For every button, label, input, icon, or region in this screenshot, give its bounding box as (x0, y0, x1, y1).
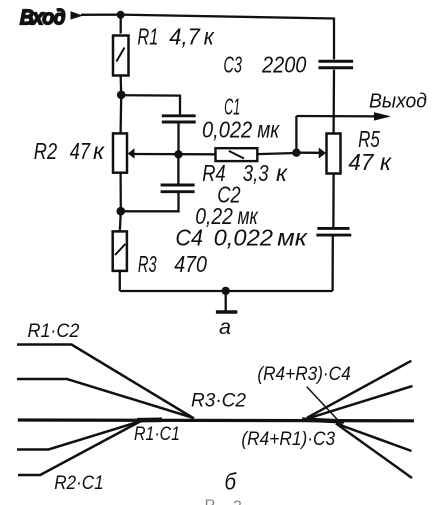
axis frequency response (18, 418, 414, 422)
junction input/R1 (117, 11, 125, 19)
wire stub up to output line (295, 116, 297, 153)
svg-text:(R4+R3)·C4: (R4+R3)·C4 (257, 364, 350, 385)
svg-text:0,022: 0,022 (214, 225, 274, 251)
wire bottom rail (120, 290, 333, 292)
asymptote right upper steep (307, 361, 411, 418)
svg-text:(R4+R1)·C3: (R4+R1)·C3 (241, 429, 335, 450)
wire R3 bottom lead (119, 271, 121, 291)
asymptote R2·C1 (18, 421, 141, 475)
capacitor C3 (318, 61, 353, 67)
svg-text:к: к (276, 160, 288, 186)
asymptote R1·C1 (17, 421, 141, 450)
wire C3 top lead (333, 18, 335, 60)
svg-text:47: 47 (70, 138, 91, 164)
wire R2 top lead (119, 95, 122, 133)
label R3 470 (138, 251, 207, 277)
svg-text:3: 3 (233, 499, 242, 505)
svg-text:R2: R2 (34, 138, 57, 164)
junction C1/wiper line (174, 150, 182, 158)
svg-text:R1: R1 (137, 24, 158, 50)
asymptote right lower steep (336, 424, 412, 479)
svg-text:2200: 2200 (261, 52, 306, 78)
wire C3 to R5 top (332, 70, 335, 134)
axis ink blob left convergence (137, 417, 162, 422)
svg-text:R2·C1: R2·C1 (54, 473, 103, 494)
svg-text:3,3: 3,3 (243, 160, 269, 186)
wire wiper to R5 (296, 152, 319, 154)
wire C4 bottom lead (331, 236, 333, 291)
svg-text:0,022: 0,022 (202, 117, 252, 143)
asymptote R1·C2 (17, 345, 194, 419)
resistor R4 (216, 148, 258, 161)
svg-text:к: к (204, 24, 215, 50)
capacitor C1 (162, 116, 196, 122)
asymptote right upper shallow (310, 386, 413, 418)
wire C2 top lead (177, 155, 179, 184)
svg-text:470: 470 (174, 251, 207, 277)
potentiometer R2 (113, 133, 127, 172)
wiper arrow R2 (128, 148, 135, 158)
label C4 value (175, 225, 308, 251)
wire output line (296, 115, 388, 118)
svg-text:R1·C1: R1·C1 (134, 424, 180, 445)
wire wiper R2 to R4 (134, 153, 216, 156)
svg-text:а: а (219, 316, 231, 339)
potentiometer R5 (327, 134, 341, 174)
wire R1 bottom lead (120, 76, 123, 95)
leader line (R4+R3)C4 (307, 387, 343, 426)
output arrow (374, 112, 391, 120)
wire junction to C1 top (121, 95, 180, 114)
asymptote right lower shallow (336, 424, 412, 452)
svg-text:мк: мк (277, 225, 308, 251)
svg-text:б: б (225, 469, 237, 495)
label C3 2200 (223, 52, 306, 78)
label C2 value (195, 203, 258, 229)
svg-text:C4: C4 (175, 225, 203, 251)
wire R4 to junction (257, 153, 296, 154)
capacitor C2 (161, 185, 195, 192)
junction R4/R5 wiper (292, 149, 300, 157)
svg-text:к: к (380, 149, 392, 175)
svg-text:Выход: Выход (369, 91, 427, 113)
label R1 4,7 к (137, 24, 214, 50)
wire top horizontal (81, 15, 334, 19)
resistor R3 (113, 231, 127, 271)
label R2 47 к (34, 138, 105, 164)
wire R5 bottom to C4 (332, 174, 335, 228)
junction R1/R2/C1 (117, 91, 126, 100)
asymptote R3·C2 (17, 379, 192, 418)
axis ink blob right convergence (302, 420, 344, 422)
label R5 value (348, 149, 392, 175)
ground (216, 291, 237, 312)
svg-text:4,7: 4,7 (169, 24, 201, 50)
wire junction to C2 bottom (121, 193, 179, 212)
svg-text:мк: мк (257, 117, 280, 143)
wiper arrow R5 (319, 148, 326, 159)
svg-text:R3: R3 (138, 251, 157, 277)
svg-text:R3·C2: R3·C2 (191, 391, 246, 412)
wire R3 top lead (120, 211, 121, 231)
junction ground (222, 287, 230, 295)
resistor R1 (113, 36, 129, 76)
svg-text:Р: Р (205, 497, 216, 505)
svg-text:47: 47 (348, 149, 374, 175)
svg-text:Вход: Вход (20, 7, 65, 29)
capacitor C4 (316, 228, 351, 235)
input arrow (71, 11, 84, 19)
wire C1 bottom lead (177, 123, 179, 154)
svg-text:C3: C3 (223, 52, 242, 78)
svg-text:к: к (93, 138, 105, 164)
junction R2/R3/C2 (117, 207, 126, 216)
wire R2 bottom lead (119, 173, 122, 211)
label R4 3,3 к (202, 160, 288, 186)
svg-text:R1·C2: R1·C2 (28, 321, 80, 342)
label C1 value (202, 117, 280, 143)
wire R1 top lead (120, 15, 122, 34)
